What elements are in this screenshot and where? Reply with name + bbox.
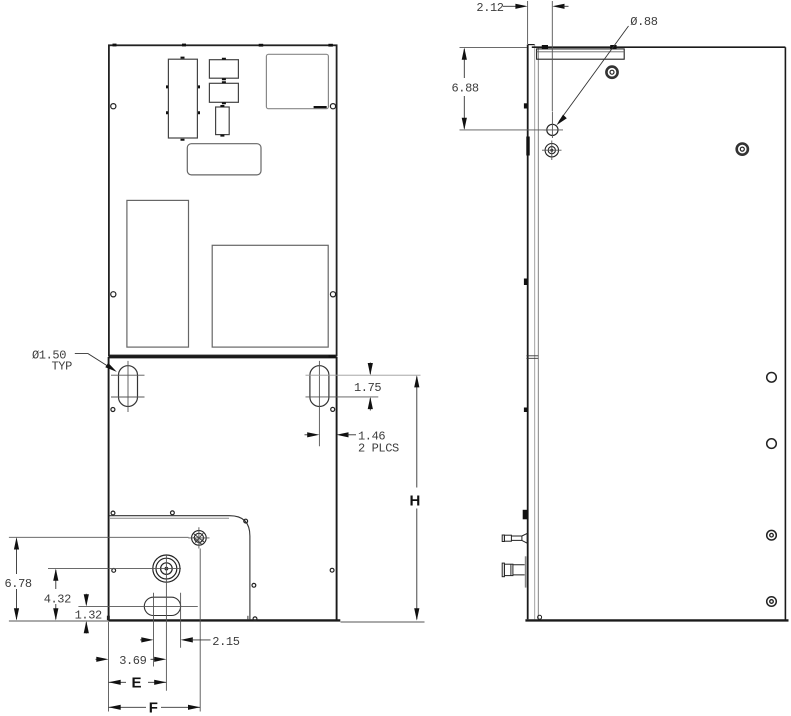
lower refrigerant line collar line (510, 564, 512, 575)
Ø.88 leader line (559, 26, 629, 122)
svg-text:TYP: TYP (52, 360, 73, 374)
svg-text:1.75: 1.75 (354, 381, 381, 395)
small rect 1 ticks (222, 59, 226, 79)
svg-text:6.78: 6.78 (5, 577, 32, 591)
svg-text:E: E (132, 675, 142, 692)
svg-text:2 PLCS: 2 PLCS (358, 442, 399, 456)
bottom left small circle (538, 615, 542, 619)
lower refrigerant line cap (502, 563, 504, 577)
extension line through bottom slot center (1.32 datum) (78, 605, 197, 607)
dimension 1.32 line and arrows (85, 594, 87, 634)
joint black tab right (329, 355, 336, 357)
access panel screws (111, 511, 334, 621)
coil panel strip (525, 556, 527, 587)
lower refrigerant line pipe (513, 565, 525, 575)
upper refrigerant line pipe (511, 536, 522, 540)
svg-text:6.88: 6.88 (452, 82, 479, 96)
Ø.88 hole crosshair (544, 112, 564, 139)
6.88 extension lines (460, 48, 547, 130)
dimension H line (416, 377, 418, 620)
access panel inner top line (110, 517, 229, 519)
cutout lower tall rectangle (127, 200, 189, 347)
right edge hole 2 (767, 439, 777, 449)
H arrows (414, 375, 419, 387)
cutout small rectangle 1 (209, 60, 238, 78)
blower access panel outline (109, 516, 250, 620)
svg-text:F: F (149, 699, 158, 716)
right edge hole 1 (767, 373, 777, 383)
duct flange bar inner line (537, 51, 625, 53)
cutout small rectangle 2 (209, 83, 238, 102)
cutout small vertical rectangle (216, 107, 230, 135)
left slot crosshair (111, 361, 145, 412)
panel bottom left foot (107, 616, 110, 620)
centerline through drain and slot (165, 555, 167, 691)
extension line through drain center (4.32 datum) (48, 568, 181, 570)
extension line from power hole to F (199, 549, 201, 712)
cutout lower large rectangle (212, 245, 328, 347)
right edge screw 3 (767, 530, 777, 540)
front view lower panel outline (109, 357, 337, 620)
power hole hatch marks (193, 533, 204, 544)
cutout tall rectangle (168, 59, 197, 138)
side view front flange left edge (527, 45, 529, 620)
extension line panel left edge to F (108, 622, 110, 712)
extension line bottom arc center right slot (306, 396, 379, 398)
bottom obround slot (144, 597, 180, 615)
dimension 2.15 arrows (140, 639, 143, 641)
front view upper panel outline (109, 45, 337, 355)
dimension 3.69 arrows (96, 658, 99, 660)
lower hole crosshair (542, 141, 562, 161)
duct flange tabs (542, 45, 548, 49)
tall rectangle ticks (167, 58, 199, 140)
side view right edge (784, 47, 786, 621)
front view bottom edge (109, 619, 341, 621)
small hole below right slot (331, 407, 335, 411)
power hole crosshair (188, 527, 209, 548)
side view bottom edge (525, 619, 788, 621)
duct flange bar (537, 49, 625, 59)
side view panel joint (526, 356, 538, 359)
svg-text:3.69: 3.69 (119, 654, 146, 668)
right slot crosshair and extension to dimensions (318, 361, 320, 446)
Ø1.50 leader line (75, 354, 114, 370)
bottom extension line right (341, 621, 425, 623)
upper refrigerant line body (504, 535, 511, 541)
svg-text:1.32: 1.32 (75, 609, 102, 623)
svg-text:2.15: 2.15 (212, 635, 239, 649)
dimension 1.46 2 PLCS arrows (305, 434, 309, 436)
drain connection concentric circles (153, 555, 180, 582)
cutout large right rectangle (266, 54, 328, 108)
hole Ø.88 (547, 124, 558, 135)
side view flange inner line (534, 45, 536, 620)
dimension E line and arrows (109, 681, 167, 683)
side view flange top step (528, 44, 535, 46)
Ø1.50 leader arrow (105, 363, 117, 372)
cutout rounded rectangle (187, 144, 261, 175)
2.12 extension lines (528, 1, 553, 111)
hole below with center (545, 144, 558, 157)
black label mark in large right rectangle (314, 106, 327, 108)
small hole below left slot (111, 408, 115, 412)
small rect 2 ticks (222, 82, 226, 103)
side view body left edge (537, 47, 539, 620)
dimension F line and arrows (109, 706, 201, 708)
svg-text:Ø.88: Ø.88 (630, 15, 657, 29)
screw top right (606, 67, 617, 78)
flange edge ticks (523, 103, 530, 519)
lower refrigerant line body (504, 564, 513, 575)
bottom extension line left (9, 620, 109, 622)
upper refrigerant line cap (502, 535, 504, 542)
extension line through power hole (6.78 datum) (9, 536, 189, 538)
right edge screw 4 (767, 597, 777, 607)
upper refrigerant line flare (522, 533, 527, 543)
dimension 4.32 line and arrows (55, 570, 57, 619)
2.12 leader and arrows (503, 5, 517, 7)
dimension 1.75 arrows (368, 364, 372, 375)
svg-text:2.12: 2.12 (476, 1, 503, 15)
extension line top arc centers (1.75 / H datum) (306, 374, 421, 376)
dimension 6.78 line and arrows (16, 539, 18, 620)
Ø.88 leader arrow (556, 115, 566, 126)
upper panel edge screws (111, 104, 336, 297)
svg-text:H: H (410, 493, 420, 510)
6.88 line and arrows (463, 49, 465, 129)
panel joint thick line (109, 356, 337, 359)
upper panel top edge screw tabs (113, 44, 333, 47)
small vertical rect ticks (220, 106, 224, 136)
svg-text:4.32: 4.32 (44, 592, 71, 606)
power entry hole with hatch (192, 531, 207, 546)
right mounting slot (310, 366, 329, 407)
access panel bottom notch (247, 616, 249, 620)
left mounting slot (119, 366, 138, 407)
side view top edge (532, 46, 786, 48)
screw middle (737, 144, 748, 155)
extension lines bottom slot arc centers (154, 593, 181, 667)
